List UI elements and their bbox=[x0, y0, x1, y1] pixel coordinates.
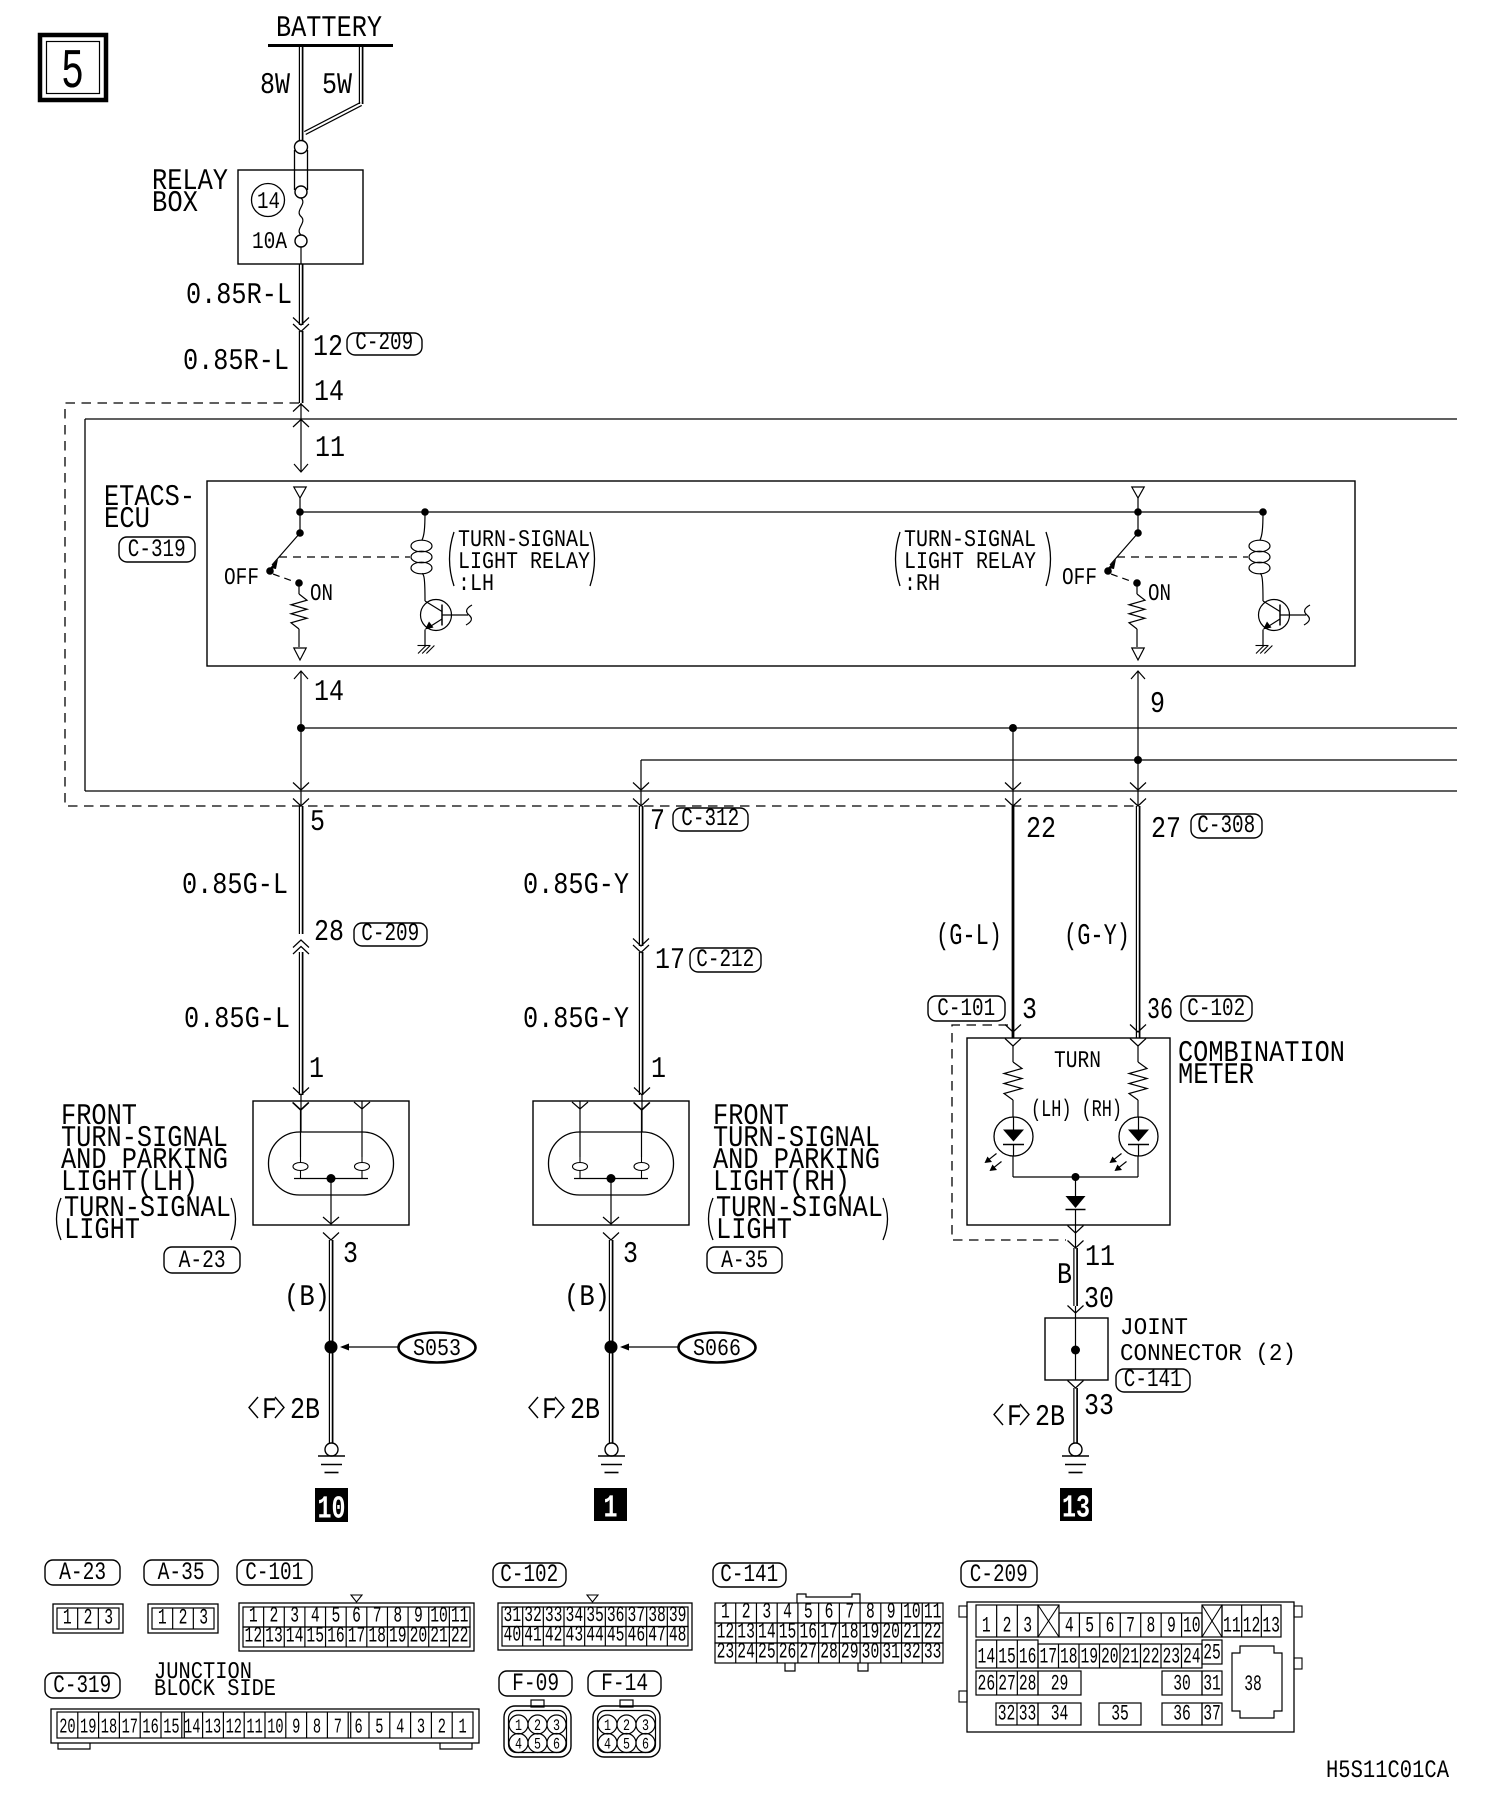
connector capsule C-312 bbox=[673, 804, 748, 833]
transistor RH bbox=[1259, 600, 1311, 631]
label OFF LH bbox=[224, 565, 259, 592]
connector capsule A-23 pinout label bbox=[45, 1558, 120, 1587]
svg-text:C-312: C-312 bbox=[681, 804, 739, 833]
svg-text:5: 5 bbox=[623, 1736, 630, 1754]
svg-text:17: 17 bbox=[122, 1717, 138, 1740]
svg-text:23: 23 bbox=[717, 1640, 735, 1665]
svg-text:2B: 2B bbox=[1035, 1401, 1065, 1435]
wire 0.85G-Y C-212 to lamp RH bbox=[634, 952, 650, 1132]
svg-text:LIGHT: LIGHT bbox=[716, 1214, 792, 1248]
svg-text:27: 27 bbox=[799, 1640, 817, 1665]
svg-text:3: 3 bbox=[623, 1238, 638, 1272]
pull resistor RH bbox=[1129, 583, 1145, 647]
svg-text:30: 30 bbox=[1084, 1283, 1114, 1317]
svg-text:(LH) (RH): (LH) (RH) bbox=[1031, 1097, 1122, 1124]
label pin 12 bbox=[313, 331, 343, 365]
svg-text:9: 9 bbox=[292, 1717, 300, 1740]
meter resistor RH bbox=[1129, 1046, 1147, 1117]
svg-text:41: 41 bbox=[524, 1623, 542, 1648]
svg-text:F: F bbox=[542, 1394, 557, 1428]
svg-text:0.85R-L: 0.85R-L bbox=[183, 345, 289, 379]
label (B) x331 bbox=[284, 1281, 330, 1315]
svg-text:33: 33 bbox=[924, 1640, 942, 1665]
label 8W bbox=[260, 69, 290, 103]
svg-text:C-209: C-209 bbox=[361, 919, 419, 948]
resistor exit triangle RH bbox=[1132, 648, 1144, 660]
svg-text:14: 14 bbox=[257, 189, 280, 216]
svg-text:1: 1 bbox=[604, 1717, 611, 1735]
svg-text:45: 45 bbox=[607, 1623, 625, 1648]
svg-text:0.85G-L: 0.85G-L bbox=[182, 869, 288, 903]
svg-text:5: 5 bbox=[310, 806, 325, 840]
connector capsule C-209 pinout label bbox=[961, 1560, 1037, 1589]
label ON LH bbox=[310, 581, 333, 608]
svg-text:1: 1 bbox=[459, 1717, 467, 1740]
svg-text:6: 6 bbox=[355, 1717, 363, 1740]
resistor exit triangle LH bbox=[294, 648, 306, 660]
wire joint connector to ground bbox=[1074, 1388, 1077, 1443]
label JUNCTION BLOCK SIDE bbox=[154, 1659, 276, 1703]
svg-text:5: 5 bbox=[375, 1717, 383, 1740]
meter internal diode bbox=[1066, 1177, 1086, 1248]
svg-text:34: 34 bbox=[1051, 1702, 1069, 1727]
svg-text:0.85R-L: 0.85R-L bbox=[186, 279, 292, 313]
svg-text:BOX: BOX bbox=[152, 187, 198, 221]
label front turn-signal lamp LH bbox=[57, 1100, 236, 1248]
svg-text:F-14: F-14 bbox=[601, 1669, 648, 1698]
svg-text:24: 24 bbox=[737, 1640, 755, 1665]
inline connector crossing pin 28 bbox=[293, 940, 309, 954]
label pin 7 bbox=[650, 805, 665, 839]
label 0.85G-L lower bbox=[184, 1003, 290, 1037]
label 0.85G-L upper bbox=[182, 869, 288, 903]
svg-text:3: 3 bbox=[199, 1606, 208, 1631]
svg-text::LH: :LH bbox=[458, 571, 494, 598]
svg-text:OFF: OFF bbox=[1062, 565, 1097, 592]
svg-text:(G-L): (G-L) bbox=[936, 920, 1002, 954]
label 0.85G-Y lower bbox=[523, 1003, 629, 1037]
label F 2B meter ground wire bbox=[994, 1401, 1065, 1435]
svg-text:12: 12 bbox=[313, 331, 343, 365]
svg-text:JOINT: JOINT bbox=[1120, 1315, 1188, 1342]
svg-text:2: 2 bbox=[84, 1606, 93, 1631]
svg-text:0.85G-Y: 0.85G-Y bbox=[523, 1003, 629, 1037]
svg-text:5W: 5W bbox=[322, 69, 352, 103]
wire meter LH tap to pin 22 bbox=[1005, 728, 1021, 806]
meter resistor LH bbox=[1004, 1046, 1022, 1117]
label turn-signal light relay RH bbox=[896, 527, 1051, 598]
svg-text:36: 36 bbox=[1147, 994, 1173, 1028]
svg-text:2: 2 bbox=[179, 1606, 188, 1631]
svg-text:11: 11 bbox=[1223, 1614, 1241, 1639]
svg-text:31: 31 bbox=[882, 1640, 900, 1665]
label 0.85R-L lower bbox=[183, 345, 289, 379]
svg-text:3: 3 bbox=[1022, 994, 1037, 1028]
svg-text:1: 1 bbox=[309, 1053, 324, 1087]
svg-text:37: 37 bbox=[1203, 1702, 1221, 1727]
label turn-signal light relay LH bbox=[450, 527, 595, 598]
junction block dashed boundary bbox=[65, 403, 1136, 806]
svg-text:3: 3 bbox=[1023, 1614, 1032, 1639]
combination meter box bbox=[967, 1038, 1170, 1225]
wire G-Y pin 27 to meter pin 36 bbox=[1130, 806, 1146, 1046]
svg-text:14: 14 bbox=[314, 376, 344, 410]
svg-text:21: 21 bbox=[1121, 1645, 1139, 1670]
svg-text:C-141: C-141 bbox=[1124, 1365, 1182, 1394]
lamp wire exit chevron x611 bbox=[603, 1233, 619, 1241]
inline connector crossing pin 12 bbox=[293, 318, 309, 332]
svg-text:10: 10 bbox=[1183, 1614, 1201, 1639]
svg-text:S066: S066 bbox=[693, 1336, 741, 1363]
svg-text:14: 14 bbox=[314, 676, 344, 710]
diagram code H5S11C01CA bbox=[1326, 1756, 1449, 1785]
svg-text:2B: 2B bbox=[570, 1394, 600, 1428]
label RELAY BOX bbox=[152, 165, 228, 221]
splice S053 bbox=[325, 1333, 476, 1364]
label pin 9 bbox=[1150, 688, 1165, 722]
svg-text:C-141: C-141 bbox=[720, 1560, 778, 1589]
ground lamp x611 bbox=[598, 1443, 625, 1473]
svg-text:31: 31 bbox=[1203, 1672, 1221, 1697]
svg-text:F: F bbox=[1007, 1401, 1022, 1435]
fuse number circle 14 bbox=[252, 184, 285, 217]
wire 0.85R-L C-209 to junction block bbox=[299, 331, 302, 403]
svg-text:1: 1 bbox=[651, 1053, 666, 1087]
wire fuse to relay box edge bbox=[300, 247, 302, 264]
relay switch LH bbox=[266, 498, 410, 587]
svg-text:25: 25 bbox=[758, 1640, 776, 1665]
turn indicator LED LH bbox=[985, 1117, 1034, 1171]
label pin 5 bbox=[310, 806, 325, 840]
svg-text:10A: 10A bbox=[252, 229, 287, 256]
label TURN bbox=[1054, 1048, 1101, 1075]
wire 0.85G-L C-209 to lamp LH bbox=[293, 952, 309, 1132]
svg-text:35: 35 bbox=[1111, 1702, 1129, 1727]
label JOINT CONNECTOR (2) bbox=[1120, 1315, 1296, 1368]
svg-text:6: 6 bbox=[642, 1736, 649, 1754]
connector capsule C-308 bbox=[1191, 811, 1262, 840]
svg-text:11: 11 bbox=[1085, 1241, 1115, 1275]
label F 2B x331 bbox=[249, 1394, 320, 1428]
label pin 14 junction block bbox=[314, 376, 344, 410]
svg-text:TURN: TURN bbox=[1054, 1048, 1101, 1075]
svg-text:42: 42 bbox=[545, 1623, 563, 1648]
connector capsule C-212 bbox=[690, 945, 761, 974]
svg-text:8W: 8W bbox=[260, 69, 290, 103]
svg-text:F: F bbox=[262, 1394, 277, 1428]
svg-text:29: 29 bbox=[841, 1640, 859, 1665]
svg-text:22: 22 bbox=[1142, 1645, 1160, 1670]
svg-text:18: 18 bbox=[1060, 1645, 1078, 1670]
svg-text:9: 9 bbox=[1167, 1614, 1176, 1639]
svg-text:4: 4 bbox=[515, 1736, 522, 1754]
fusible link connector bbox=[295, 141, 308, 199]
meter exit chevrons bbox=[1068, 1226, 1084, 1249]
relay switch RH bbox=[1104, 498, 1248, 587]
svg-text:C-101: C-101 bbox=[937, 994, 995, 1023]
svg-text:10: 10 bbox=[267, 1717, 283, 1740]
wire 0.85G-Y pin 7 to C-212 bbox=[639, 806, 642, 946]
svg-text:38: 38 bbox=[1244, 1672, 1262, 1697]
label pin 1 lamp RH bbox=[651, 1053, 666, 1087]
svg-text:25: 25 bbox=[1203, 1641, 1221, 1666]
svg-text:43: 43 bbox=[566, 1623, 584, 1648]
svg-text:0.85G-Y: 0.85G-Y bbox=[523, 869, 629, 903]
label 0.85G-Y upper bbox=[523, 869, 629, 903]
connector A-35 pinout bbox=[148, 1604, 218, 1633]
relay coil LH (turn-signal light relay LH) bbox=[411, 508, 432, 601]
wire 0.85R-L relay box to C-209 bbox=[299, 264, 302, 325]
label 5W bbox=[322, 69, 352, 103]
svg-text:29: 29 bbox=[1051, 1672, 1069, 1697]
svg-text:27: 27 bbox=[1151, 813, 1181, 847]
page ref box 10 bbox=[315, 1488, 348, 1528]
svg-text:11: 11 bbox=[246, 1717, 262, 1740]
svg-text:28: 28 bbox=[1019, 1672, 1037, 1697]
wire 0.85G-L pin 5 to C-209 bbox=[299, 806, 302, 934]
svg-text:26: 26 bbox=[779, 1640, 797, 1665]
svg-text:4: 4 bbox=[604, 1736, 611, 1754]
svg-text:16: 16 bbox=[327, 1624, 345, 1649]
svg-text:1: 1 bbox=[515, 1717, 522, 1735]
boundary crossing chevrons pin 14/11 bbox=[293, 404, 309, 427]
connector C-319 pinout bbox=[51, 1709, 479, 1749]
RH output rail bbox=[641, 759, 1457, 761]
label pin 28 bbox=[314, 916, 344, 950]
svg-text:ON: ON bbox=[1148, 581, 1171, 608]
svg-text:24: 24 bbox=[1183, 1645, 1201, 1670]
label G-Y bbox=[1064, 920, 1130, 954]
svg-text:7: 7 bbox=[334, 1717, 342, 1740]
svg-text:B: B bbox=[1057, 1259, 1072, 1293]
svg-text:21: 21 bbox=[430, 1624, 448, 1649]
label (B) x611 bbox=[564, 1281, 610, 1315]
node meter common bbox=[1072, 1173, 1080, 1181]
svg-text:2: 2 bbox=[1003, 1614, 1012, 1639]
svg-text:23: 23 bbox=[1162, 1645, 1180, 1670]
label pin 1 lamp LH bbox=[309, 1053, 324, 1087]
svg-text:LIGHT: LIGHT bbox=[64, 1214, 140, 1248]
svg-text:17: 17 bbox=[655, 944, 685, 978]
connector capsule A-35 pinout label bbox=[144, 1558, 218, 1587]
svg-text:2: 2 bbox=[623, 1717, 630, 1735]
svg-text:14: 14 bbox=[286, 1624, 304, 1649]
page ref box 13 bbox=[1060, 1488, 1092, 1527]
svg-text:OFF: OFF bbox=[224, 565, 259, 592]
ground meter circuit bbox=[1062, 1443, 1089, 1473]
connector capsule A-23 bbox=[164, 1246, 240, 1275]
svg-text:C-102: C-102 bbox=[500, 1560, 558, 1589]
junction block solid boundary bottom bbox=[85, 790, 1457, 792]
svg-text:C-319: C-319 bbox=[128, 535, 186, 564]
svg-text:16: 16 bbox=[1019, 1645, 1037, 1670]
svg-text:18: 18 bbox=[368, 1624, 386, 1649]
label pin 17 bbox=[655, 944, 685, 978]
lamp wire exit chevron x331 bbox=[323, 1233, 339, 1241]
page ref box 1 bbox=[594, 1488, 627, 1527]
node meter LH tap bbox=[1009, 724, 1017, 732]
connector C-209 pinout bbox=[959, 1602, 1302, 1732]
svg-text:F-09: F-09 bbox=[512, 1669, 559, 1698]
junction block solid boundary top bbox=[85, 418, 1457, 420]
svg-text:13: 13 bbox=[1262, 1614, 1280, 1639]
svg-text:1: 1 bbox=[604, 1490, 618, 1527]
label pin 14 below ETACS bbox=[314, 676, 344, 710]
svg-text:12: 12 bbox=[245, 1624, 263, 1649]
ETACS-ECU box bbox=[207, 481, 1355, 666]
connector capsule C-101 pinout label bbox=[237, 1558, 312, 1587]
svg-text:15: 15 bbox=[163, 1717, 179, 1740]
svg-text:13: 13 bbox=[205, 1717, 221, 1740]
svg-text:47: 47 bbox=[648, 1623, 666, 1648]
front turn-signal lamp RH (A-35) bbox=[533, 1101, 689, 1225]
svg-text:22: 22 bbox=[1026, 813, 1056, 847]
svg-text:(B): (B) bbox=[564, 1281, 610, 1315]
connector capsule C-141 label bbox=[1116, 1365, 1190, 1394]
svg-text:3: 3 bbox=[417, 1717, 425, 1740]
connector A-23 pinout bbox=[53, 1604, 123, 1633]
svg-text:1: 1 bbox=[158, 1606, 167, 1631]
connector C-102 pinout bbox=[498, 1595, 692, 1650]
wire B meter to joint connector bbox=[1068, 1248, 1084, 1318]
joint connector exit chevron bbox=[1068, 1381, 1084, 1389]
svg-text:30: 30 bbox=[862, 1640, 880, 1665]
label lamp pin 3 x611 bbox=[623, 1238, 638, 1272]
combination meter dashed boundary bbox=[952, 1025, 1066, 1240]
ground lamp x331 bbox=[318, 1443, 345, 1473]
connector capsule C-102 pinout label bbox=[493, 1560, 566, 1589]
svg-text:A-35: A-35 bbox=[721, 1246, 768, 1275]
svg-text:(B): (B) bbox=[284, 1281, 330, 1315]
connector C-141 pinout bbox=[715, 1594, 943, 1671]
svg-text:C-101: C-101 bbox=[245, 1558, 303, 1587]
svg-text:14: 14 bbox=[978, 1645, 996, 1670]
svg-text:S053: S053 bbox=[413, 1336, 461, 1363]
svg-text:48: 48 bbox=[669, 1623, 687, 1648]
svg-text:C-102: C-102 bbox=[1187, 994, 1245, 1023]
svg-text:4: 4 bbox=[396, 1717, 404, 1740]
label ETACS-ECU bbox=[104, 481, 195, 537]
svg-text:3: 3 bbox=[343, 1238, 358, 1272]
svg-text:8: 8 bbox=[313, 1717, 321, 1740]
svg-text:32: 32 bbox=[903, 1640, 921, 1665]
label joint pin 33 bbox=[1084, 1390, 1114, 1424]
svg-text:3: 3 bbox=[642, 1717, 649, 1735]
label meter pin 3 bbox=[1022, 994, 1037, 1028]
svg-text:METER: METER bbox=[1178, 1059, 1254, 1093]
svg-text:C-209: C-209 bbox=[970, 1560, 1028, 1589]
label 0.85R-L upper bbox=[186, 279, 292, 313]
svg-text:5: 5 bbox=[534, 1736, 541, 1754]
label pin 11 bbox=[315, 432, 345, 466]
svg-text:11: 11 bbox=[315, 432, 345, 466]
wire meter RH tap to pin 27 bbox=[1130, 760, 1146, 806]
svg-text:28: 28 bbox=[820, 1640, 838, 1665]
label pin 22 bbox=[1026, 813, 1056, 847]
svg-text:10: 10 bbox=[318, 1491, 346, 1528]
wire 5W battery branch bbox=[304, 47, 362, 134]
label meter pin 36 bbox=[1147, 994, 1173, 1028]
svg-text:15: 15 bbox=[998, 1645, 1016, 1670]
label pin 27 bbox=[1151, 813, 1181, 847]
svg-text:32: 32 bbox=[998, 1702, 1016, 1727]
svg-text:BATTERY: BATTERY bbox=[276, 12, 382, 46]
svg-text:17: 17 bbox=[348, 1624, 366, 1649]
svg-text:3: 3 bbox=[104, 1606, 113, 1631]
ETACS RH entry triangle bbox=[1132, 487, 1144, 498]
turn indicator LED RH bbox=[1110, 1117, 1159, 1171]
label F 2B x611 bbox=[529, 1394, 600, 1428]
transistor LH bbox=[421, 600, 473, 631]
svg-text:0.85G-L: 0.85G-L bbox=[184, 1003, 290, 1037]
connector capsule C-319 pinout label bbox=[45, 1671, 120, 1700]
label meter pin 11 bbox=[1085, 1241, 1115, 1275]
svg-text:3: 3 bbox=[553, 1717, 560, 1735]
svg-text:2: 2 bbox=[534, 1717, 541, 1735]
connector capsule C-141 pinout label bbox=[713, 1560, 786, 1589]
svg-text:1: 1 bbox=[982, 1614, 991, 1639]
svg-text:28: 28 bbox=[314, 916, 344, 950]
svg-text:6: 6 bbox=[1106, 1614, 1115, 1639]
svg-text:A-23: A-23 bbox=[59, 1558, 106, 1587]
svg-text:5: 5 bbox=[1085, 1614, 1094, 1639]
connector F-14 pinout bbox=[588, 1669, 661, 1757]
inline connector crossing pin 17 bbox=[633, 939, 649, 953]
transistor emitter ground RH bbox=[1256, 630, 1273, 654]
svg-text:C-212: C-212 bbox=[696, 945, 754, 974]
label front turn-signal lamp RH bbox=[709, 1100, 888, 1248]
svg-text:A-23: A-23 bbox=[179, 1246, 226, 1275]
label ON RH bbox=[1148, 581, 1171, 608]
connector capsule C-319 bbox=[119, 535, 195, 564]
svg-text:20: 20 bbox=[410, 1624, 428, 1649]
node RH output junction bbox=[1134, 756, 1142, 764]
page number box 5 bbox=[40, 35, 106, 104]
svg-text:ECU: ECU bbox=[104, 503, 150, 537]
svg-text:19: 19 bbox=[80, 1717, 96, 1740]
svg-text:7: 7 bbox=[650, 805, 665, 839]
relay coil RH (turn-signal light relay RH) bbox=[1249, 508, 1270, 601]
wire pin 11 into ETACS bbox=[294, 403, 308, 472]
svg-text:ON: ON bbox=[310, 581, 333, 608]
svg-text:33: 33 bbox=[1084, 1390, 1114, 1424]
svg-text:30: 30 bbox=[1173, 1672, 1191, 1697]
label wire B bbox=[1057, 1259, 1072, 1293]
LH output rail bbox=[301, 727, 1457, 729]
svg-text:26: 26 bbox=[978, 1672, 996, 1697]
svg-text::RH: :RH bbox=[904, 571, 940, 598]
wire LH rail to pin 5 bbox=[293, 728, 309, 806]
svg-text:15: 15 bbox=[306, 1624, 324, 1649]
relay box bbox=[238, 170, 363, 264]
pull resistor LH bbox=[291, 583, 307, 647]
svg-text:4: 4 bbox=[1065, 1614, 1074, 1639]
splice S066 bbox=[605, 1333, 756, 1364]
svg-text:19: 19 bbox=[1080, 1645, 1098, 1670]
svg-text:8: 8 bbox=[1147, 1614, 1156, 1639]
svg-text:13: 13 bbox=[1062, 1490, 1090, 1527]
svg-text:A-35: A-35 bbox=[158, 1558, 205, 1587]
svg-text:BLOCK SIDE: BLOCK SIDE bbox=[154, 1676, 276, 1703]
label lamp pin 3 x331 bbox=[343, 1238, 358, 1272]
svg-text:CONNECTOR (2): CONNECTOR (2) bbox=[1120, 1341, 1296, 1368]
svg-text:C-308: C-308 bbox=[1197, 811, 1255, 840]
svg-text:2: 2 bbox=[438, 1717, 446, 1740]
svg-text:22: 22 bbox=[451, 1624, 469, 1649]
connector capsule C-209 mid bbox=[354, 919, 427, 948]
label OFF RH bbox=[1062, 565, 1097, 592]
B+ rail inside ETACS bbox=[300, 511, 1263, 513]
